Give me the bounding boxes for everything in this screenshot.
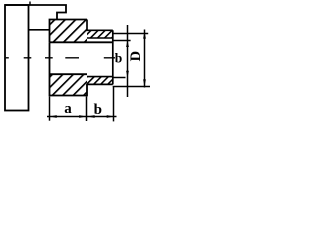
tube bore bottom edge xyxy=(87,76,113,78)
hub upper section (hatched) xyxy=(50,20,88,43)
dimension line a-b xyxy=(47,116,117,118)
extension line d top xyxy=(113,40,131,42)
tube right end face xyxy=(112,30,114,84)
dimension line d xyxy=(127,25,129,97)
bushing tube lower wall (hatched fine) xyxy=(87,77,113,85)
extension line d bottom xyxy=(113,77,126,79)
overshoot tick above top line at rect right edge xyxy=(29,2,31,6)
arrow b right xyxy=(107,115,114,118)
arrow d down xyxy=(126,71,129,78)
dimension b: right extension line xyxy=(113,86,115,121)
svg-text:D: D xyxy=(128,51,144,61)
arrow d up xyxy=(126,40,129,47)
arrow a left xyxy=(50,115,57,118)
wheel flange disc (side view rectangle) xyxy=(5,5,29,111)
tube top edge xyxy=(86,29,113,31)
svg-text:a: a xyxy=(64,101,72,117)
dimension a/b: middle extension line xyxy=(86,97,88,122)
tube outer bottom edge xyxy=(86,83,113,85)
extension line D top xyxy=(113,33,148,35)
arrow b left xyxy=(88,115,95,118)
hub step right edge (top) xyxy=(86,20,88,31)
hub upper section border xyxy=(50,20,88,43)
svg-text:b: b xyxy=(115,51,123,66)
bushing tube upper wall (hatched fine) xyxy=(87,30,113,38)
connector line rect to hub (tube outer, left of hub) xyxy=(29,29,50,31)
arrow a right xyxy=(79,115,86,118)
arrow D down xyxy=(143,79,146,86)
hub lower section border xyxy=(50,42,88,95)
extension line D bottom xyxy=(113,86,150,88)
keyway bottom line (full length) xyxy=(50,41,113,43)
tube bore top edge xyxy=(87,37,113,39)
dimension line D xyxy=(144,30,146,88)
hub lower section (hatched) xyxy=(50,74,88,95)
svg-text:b: b xyxy=(94,102,102,118)
top outline of wheel hub with step tab xyxy=(5,5,66,20)
centerline (dash-dot axis) xyxy=(6,57,115,59)
dimension a: left extension line xyxy=(49,97,51,121)
arrow D up xyxy=(143,32,146,39)
